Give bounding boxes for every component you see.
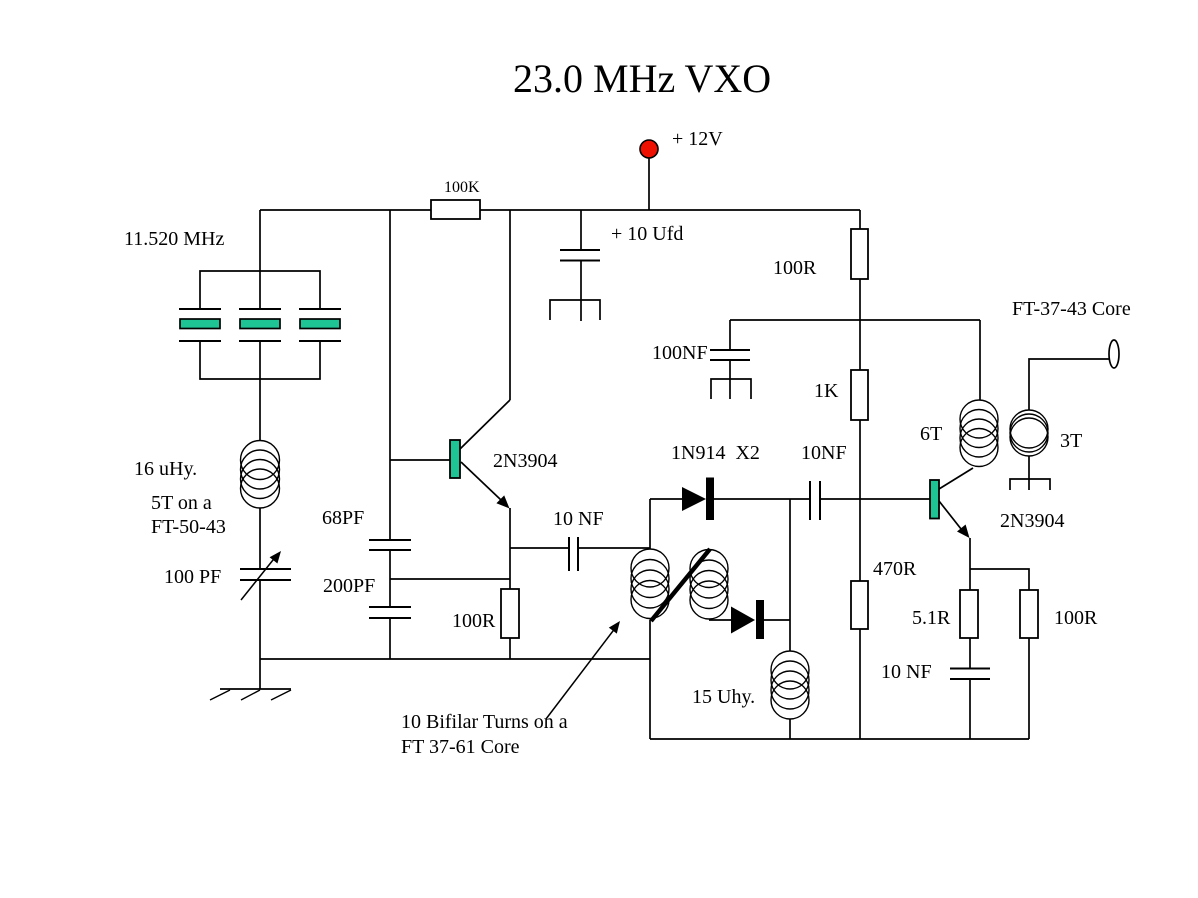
wire C8 to rail bbox=[969, 679, 971, 739]
svg-text:470R: 470R bbox=[873, 558, 917, 580]
transistor Q2 2N3904 bbox=[930, 468, 973, 538]
inductor T2 6T bbox=[960, 400, 998, 467]
wire doubler left column bottom bbox=[649, 620, 651, 739]
wire 3T bottom bbox=[1028, 456, 1030, 490]
wire Q1 collector bbox=[509, 210, 511, 400]
wire doubler left column top bbox=[649, 499, 651, 549]
svg-text:1N914 X2: 1N914 X2 bbox=[671, 442, 760, 464]
annotation arrow bifilar bbox=[546, 621, 620, 719]
wire 6T feed bbox=[979, 320, 981, 400]
wire Q2 base line bbox=[820, 498, 930, 500]
transistor Q1 2N3904 bbox=[450, 400, 510, 509]
svg-text:15 Uhy.: 15 Uhy. bbox=[692, 686, 755, 708]
output terminal bbox=[1109, 340, 1119, 368]
capacitor C5 100NF bbox=[710, 320, 751, 399]
inductor T2 3T bbox=[1010, 410, 1048, 456]
wire R3 to R4 bbox=[859, 279, 861, 370]
svg-text:1K: 1K bbox=[814, 380, 839, 402]
svg-text:100R: 100R bbox=[773, 257, 817, 279]
wire crystal bottom center bbox=[259, 341, 261, 440]
wire R2 to rail bbox=[509, 638, 511, 659]
resistor R7 470R bbox=[851, 581, 868, 629]
capacitor C6 10 NF coupling bbox=[510, 537, 650, 571]
wire R7 to rail bbox=[859, 629, 861, 739]
svg-text:10 Bifilar Turns on a: 10 Bifilar Turns on a bbox=[401, 711, 568, 733]
svg-text:10 NF: 10 NF bbox=[553, 508, 604, 530]
svg-text:100R: 100R bbox=[1054, 607, 1098, 629]
svg-text:5T on a: 5T on a bbox=[151, 492, 212, 514]
svg-text:2N3904: 2N3904 bbox=[1000, 510, 1064, 532]
wire bottom rail right bbox=[650, 738, 1029, 740]
svg-text:10 NF: 10 NF bbox=[881, 661, 932, 683]
resistor R4 1K bbox=[851, 370, 868, 420]
wire C3 to rail bbox=[389, 618, 391, 659]
svg-text:FT-37-43 Core: FT-37-43 Core bbox=[1012, 298, 1131, 320]
wire bottom rail left bbox=[260, 658, 650, 660]
wire crystal top bracket bbox=[200, 271, 320, 309]
svg-text:200PF: 200PF bbox=[323, 575, 375, 597]
wire D2 to column bbox=[764, 619, 790, 621]
svg-text:2N3904: 2N3904 bbox=[493, 450, 557, 472]
svg-text:+ 10 Ufd: + 10 Ufd bbox=[611, 223, 683, 245]
svg-text:100NF: 100NF bbox=[652, 342, 708, 364]
wire R4 to base node bbox=[859, 420, 861, 499]
svg-text:23.0 MHz VXO: 23.0 MHz VXO bbox=[513, 56, 771, 101]
capacitor C7 10NF bbox=[810, 481, 820, 520]
wire doubler top line bbox=[650, 498, 682, 500]
wire R6 to rail bbox=[1028, 638, 1030, 739]
wire decoupled node bbox=[730, 319, 980, 321]
crystal Y2 bbox=[239, 309, 281, 341]
resistor R2 100R bbox=[501, 589, 519, 638]
wire L2 to rail bbox=[789, 719, 791, 739]
svg-text:10NF: 10NF bbox=[801, 442, 847, 464]
wire crystal top center bbox=[259, 210, 261, 309]
resistor R6 100R right bbox=[1020, 590, 1038, 638]
capacitor C4 +10Ufd bbox=[550, 210, 600, 321]
svg-text:11.520 MHz: 11.520 MHz bbox=[124, 228, 224, 250]
wire base column bbox=[389, 210, 391, 539]
capacitor C8 10NF bypass bbox=[950, 669, 990, 680]
resistor R1 100K bbox=[431, 200, 480, 219]
capacitor C1 100PF variable bbox=[240, 551, 291, 600]
ground bracket 3T bbox=[1010, 479, 1050, 490]
wire Q1 emitter column bbox=[509, 508, 511, 589]
svg-text:+ 12V: + 12V bbox=[672, 128, 723, 150]
wire T1 to D2 bbox=[709, 619, 731, 621]
wire top rail right bbox=[480, 209, 860, 211]
wire doubler right column bbox=[789, 499, 791, 651]
wire emitter split bbox=[970, 569, 1029, 590]
transformer T1 core bar bbox=[651, 549, 710, 621]
wire crystal bottom bracket bbox=[200, 341, 320, 379]
wire base lead Q1 bbox=[390, 459, 450, 461]
svg-text:68PF: 68PF bbox=[322, 507, 364, 529]
svg-text:FT-50-43: FT-50-43 bbox=[151, 516, 226, 538]
svg-text:100R: 100R bbox=[452, 610, 496, 632]
transformer T1 left winding bbox=[631, 549, 669, 619]
svg-text:16 uHy.: 16 uHy. bbox=[134, 458, 197, 480]
svg-text:100 PF: 100 PF bbox=[164, 566, 221, 588]
svg-text:3T: 3T bbox=[1060, 430, 1082, 452]
transformer T1 right winding bbox=[690, 550, 728, 620]
ground bbox=[210, 689, 291, 700]
wire Q2 emitter bbox=[969, 538, 971, 590]
svg-text:5.1R: 5.1R bbox=[912, 607, 951, 629]
wire 3T top bbox=[1029, 359, 1110, 410]
svg-text:FT 37-61 Core: FT 37-61 Core bbox=[401, 736, 520, 758]
inductor L2 15 Uhy bbox=[771, 651, 809, 719]
capacitor C2 68PF bbox=[369, 540, 411, 550]
diode D1 1N914 bbox=[682, 478, 714, 521]
crystal Y1 bbox=[179, 309, 221, 341]
resistor R5 5.1R bbox=[960, 590, 978, 638]
diode D2 1N914 bbox=[731, 600, 764, 639]
node +12V supply dot bbox=[640, 140, 658, 158]
wire +12V stub bbox=[648, 158, 650, 210]
crystal Y3 bbox=[299, 309, 341, 341]
capacitor C3 200PF bbox=[369, 607, 411, 618]
wire C1 to ground bbox=[259, 580, 261, 689]
wire L1 to C1 bbox=[259, 508, 261, 569]
inductor L1 16uHy bbox=[241, 441, 280, 509]
svg-text:100K: 100K bbox=[444, 179, 480, 196]
wire top rail left bbox=[260, 209, 431, 211]
wire C2 to C3 bbox=[389, 550, 391, 607]
resistor R3 100R top bbox=[851, 210, 868, 279]
wire R5 to C8 bbox=[969, 638, 971, 668]
wire 470R branch bbox=[859, 499, 861, 581]
wire emitter feedback tap bbox=[390, 578, 510, 580]
wire D1 to C7 bbox=[714, 498, 810, 500]
svg-text:6T: 6T bbox=[920, 423, 942, 445]
